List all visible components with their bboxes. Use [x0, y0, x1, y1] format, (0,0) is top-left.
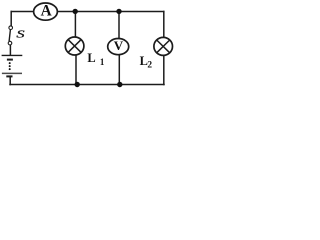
wire branch L1 from top junction down	[74, 12, 76, 37]
battery plate long + (bottom cell)	[2, 72, 22, 74]
svg-text:S: S	[16, 29, 24, 41]
lamp L2	[154, 37, 173, 55]
wire branch voltmeter from top junction down	[118, 12, 120, 39]
lamp L1	[65, 37, 84, 55]
wire right vertical down to lamp L2	[163, 12, 165, 38]
node junction top-right (to voltmeter)	[116, 9, 121, 14]
wire left vertical from top corner to switch	[10, 12, 12, 26]
node junction bottom-left (from L1)	[75, 82, 80, 87]
switch S	[8, 26, 12, 45]
wire top-left horizontal to ammeter	[11, 11, 33, 13]
node junction top-left (to L1)	[73, 9, 78, 14]
battery plate short - (top cell)	[7, 59, 13, 61]
battery plate long + (top)	[2, 54, 23, 56]
voltmeter V	[108, 38, 129, 55]
battery (multi-cell)	[2, 55, 23, 76]
svg-text:A: A	[41, 2, 52, 19]
ammeter A	[34, 2, 58, 20]
svg-text:V: V	[114, 38, 124, 53]
wire switch to battery	[9, 45, 11, 55]
wire voltmeter bottom to bottom rail	[118, 55, 120, 85]
svg-text:L1: L1	[87, 51, 104, 67]
node junction bottom-right (from voltmeter)	[117, 82, 122, 87]
svg-text:L2: L2	[140, 54, 153, 70]
wire bottom rail	[10, 84, 164, 86]
battery dotted cells indicator	[9, 62, 11, 70]
battery plate short - (bottom)	[6, 75, 12, 77]
wire ammeter to right corner along top	[57, 11, 163, 13]
wire battery to bottom-left corner	[9, 77, 11, 84]
wire lamp L1 bottom to bottom rail	[75, 55, 77, 84]
wire lamp L2 bottom to bottom rail	[163, 56, 165, 85]
